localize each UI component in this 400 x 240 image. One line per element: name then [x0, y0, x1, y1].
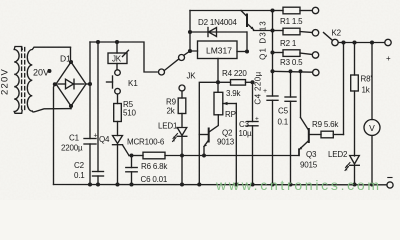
- wire Q1 base vertical: [246, 32, 248, 52]
- wire adj left branch: [199, 82, 218, 184]
- junction rail LED2: [352, 182, 356, 186]
- top rail y42: [90, 42, 157, 72]
- node adj: [216, 80, 220, 84]
- node Q2 emitter: [202, 154, 206, 158]
- wire R9 to LED1: [181, 114, 183, 128]
- node C5 tap: [289, 69, 293, 73]
- label K1: [128, 79, 138, 88]
- wire +v vertical x90 top: [89, 42, 91, 139]
- node col top: [270, 8, 274, 12]
- node JK coil tap: [115, 40, 119, 44]
- wire direct tap: [273, 70, 313, 73]
- thyristor Q4: [113, 136, 130, 185]
- node D2 anode: [188, 30, 192, 34]
- wire coil to K1: [116, 64, 118, 70]
- ground rail: [54, 184, 387, 186]
- wire secondary top to bridge: [70, 48, 72, 63]
- label MCR100-6: [127, 138, 165, 147]
- resistor R9: [178, 98, 186, 114]
- gate sub-rail y155.5: [129, 155, 143, 157]
- node bus R9b: [341, 40, 345, 44]
- terminal plus: [385, 39, 391, 45]
- voltmeter V: [364, 43, 380, 185]
- node LED1 subrail: [180, 154, 184, 158]
- transistor Q1: [241, 11, 254, 30]
- node LM317 in: [188, 49, 192, 53]
- label LED1: [158, 122, 178, 131]
- label LED2: [328, 150, 348, 159]
- label K2: [332, 29, 342, 38]
- wire output column x272.5: [272, 11, 274, 97]
- wire LM317 out: [237, 51, 247, 53]
- potentiometer RP: [214, 92, 236, 115]
- transformer T primary winding: [14, 47, 22, 114]
- top line to Q1 collector: [190, 10, 273, 12]
- terminal circle R1: [312, 7, 318, 13]
- switch JK arm: [164, 59, 179, 71]
- label C6 0.01: [141, 175, 168, 184]
- label R9 2k: [166, 98, 177, 116]
- label JK coil: [112, 55, 122, 64]
- label LM317: [206, 46, 232, 56]
- label R8 1k: [361, 75, 373, 95]
- capacitor C2: [93, 172, 104, 185]
- wire K1 to R5: [117, 94, 119, 104]
- capacitor C3: [247, 122, 258, 185]
- junction rail C2: [96, 182, 100, 186]
- label C3 10u: [239, 116, 260, 139]
- wire R5 to Q4: [117, 122, 119, 136]
- wire LED1 to rails: [181, 136, 183, 184]
- label R6 6.8k: [141, 162, 168, 171]
- transformer core: [22, 48, 25, 113]
- resistor R9b: [309, 131, 344, 138]
- junction rail C3: [250, 182, 254, 186]
- capacitor C5: [285, 71, 296, 184]
- junction rail C1: [88, 182, 92, 186]
- junction rail C6: [129, 182, 133, 186]
- switch JK contact A: [159, 69, 165, 75]
- resistor R4: [231, 80, 246, 86]
- resistor R8: [351, 43, 359, 157]
- node out pin: [245, 49, 249, 53]
- transformer T secondary winding: [27, 47, 71, 112]
- label D2 1N4004: [198, 18, 237, 27]
- wire C3 vertical: [252, 82, 254, 121]
- wire LM317 adj: [217, 59, 219, 93]
- pushbutton K1: [107, 70, 121, 94]
- wire switch B to LM317 in: [184, 51, 198, 55]
- capacitor C6: [126, 156, 137, 185]
- label C2 0.1: [74, 161, 85, 180]
- label RP: [225, 110, 236, 119]
- junction rail C4: [270, 182, 274, 186]
- bridge rectifier D1 diamond: [56, 62, 86, 106]
- node bus R8: [352, 40, 356, 44]
- terminal circle direct: [313, 69, 319, 75]
- label R1 1.5: [280, 17, 303, 26]
- wire R4 leads: [218, 81, 253, 83]
- label R2 1: [280, 39, 297, 48]
- switch JK contact B: [179, 55, 185, 61]
- node R4 right: [250, 80, 254, 84]
- junction rail adj branch: [197, 182, 201, 186]
- label R4 220: [222, 69, 247, 78]
- terminal circle R3: [312, 52, 318, 58]
- switch JK lower contact: [179, 85, 185, 91]
- label Q3 9015: [300, 150, 318, 170]
- terminal minus: [387, 182, 393, 188]
- label R5 510: [123, 100, 136, 118]
- junction rail RP wiper branch: [234, 182, 238, 186]
- label R9 5.6k: [312, 120, 339, 129]
- label 20V: [33, 68, 49, 78]
- node bridge left vertex: [53, 82, 57, 86]
- diode D2: [190, 28, 247, 37]
- wire secondary bottom to bridge: [70, 106, 72, 109]
- relay coil JK: [108, 50, 129, 63]
- node bridge+: [88, 82, 92, 86]
- wire bridge minus down to ground rail: [54, 85, 55, 185]
- label Q2 9013: [217, 129, 235, 147]
- wire bridge plus to +v vertical: [86, 83, 90, 85]
- node Q3 tap: [299, 69, 303, 73]
- resistor R5: [114, 104, 122, 122]
- wire JK coil tap down: [116, 42, 118, 53]
- node C2 top: [96, 40, 100, 44]
- wire RP bottom to Q2 collector: [209, 115, 218, 132]
- junction rail C5: [288, 182, 292, 186]
- capacitor C1: [84, 139, 96, 185]
- transistor Q2: [199, 129, 208, 156]
- label 3.9k: [226, 89, 242, 98]
- resistor R1: [273, 7, 313, 14]
- wire C2 branch x98: [97, 42, 99, 172]
- regulator U1 LM317: [198, 41, 238, 59]
- label Q1 D313: [259, 20, 268, 60]
- label C1 2200u: [61, 133, 98, 153]
- label C5 0.1: [278, 107, 289, 127]
- node col 4th: [270, 69, 274, 73]
- LED LED2: [345, 156, 359, 185]
- terminal circle R2: [312, 30, 318, 36]
- label C4 220u: [254, 71, 268, 104]
- junction rail LED1 branch: [180, 182, 184, 186]
- node bus V: [370, 40, 374, 44]
- node col R3: [270, 50, 274, 54]
- switch K2 arm: [324, 33, 333, 41]
- junction rail Q4 cathode: [115, 182, 119, 186]
- node C6 tap: [130, 154, 134, 158]
- node bridge bottom: [69, 104, 73, 108]
- sub-rail right section: [165, 149, 299, 156]
- label JK switch: [187, 72, 197, 81]
- resistor R6: [143, 152, 165, 159]
- label V: [369, 123, 375, 133]
- label plus: [386, 54, 391, 63]
- node col emitter: [270, 28, 274, 32]
- node winding polarity dot: [48, 69, 52, 73]
- capacitor C4: [267, 96, 278, 185]
- D1 inner diode: [58, 79, 84, 89]
- label 220V: [0, 68, 11, 95]
- node bridge top: [69, 60, 73, 64]
- junction rail voltmeter: [370, 182, 374, 186]
- wire RP wiper down: [235, 104, 237, 185]
- wire R9b to bus: [343, 43, 345, 135]
- label D1: [60, 54, 71, 64]
- resistor R3: [273, 50, 313, 57]
- wire IN vertical to D2: [189, 11, 191, 52]
- output bus: [338, 42, 385, 44]
- resistor R2: [273, 28, 313, 35]
- transistor Q3: [299, 71, 309, 155]
- wire contact to R9: [181, 91, 183, 98]
- LED LED1: [173, 128, 187, 142]
- label R3 0.5: [280, 58, 303, 67]
- label Q4: [99, 135, 110, 144]
- svg-text:www.cntronics.com: www.cntronics.com: [215, 177, 382, 193]
- switch K2 wiper: [332, 39, 338, 45]
- wire Q1 emitter: [254, 30, 273, 32]
